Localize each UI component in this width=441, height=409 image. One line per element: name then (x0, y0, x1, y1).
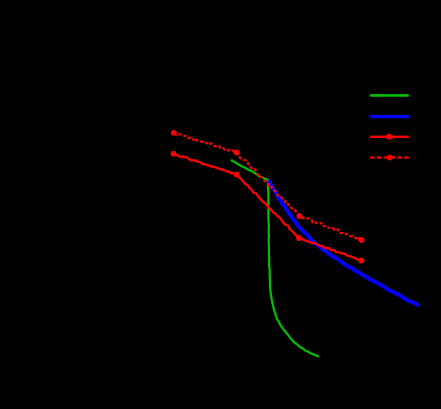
legend red solid line with marker (370, 134, 409, 140)
red dashed curve (174, 133, 361, 240)
legend green line (370, 94, 409, 97)
green curve (232, 161, 318, 357)
red solid curve (174, 154, 362, 261)
legend red dashed line with marker (370, 155, 409, 161)
legend blue line (370, 115, 409, 118)
red solid curve markers (171, 151, 365, 264)
blue curve (269, 182, 418, 305)
red dashed curve markers (171, 130, 365, 243)
